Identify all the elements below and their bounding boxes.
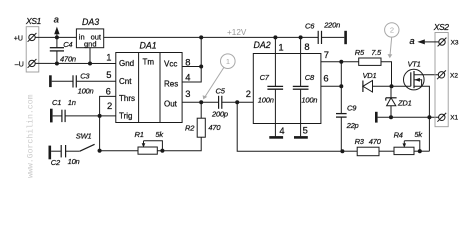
- junction dot R1 right: [160, 149, 164, 153]
- svg-text:C2: C2: [51, 158, 61, 167]
- wire DA1 pin 6: [100, 96, 116, 150]
- svg-text:4: 4: [185, 72, 190, 83]
- svg-text:Trig: Trig: [119, 112, 132, 121]
- capacitor C1: [53, 115, 62, 117]
- svg-text:Res: Res: [164, 80, 178, 89]
- svg-text:100n: 100n: [301, 96, 317, 105]
- svg-text:2: 2: [390, 26, 394, 35]
- resistor R3 470: [342, 150, 357, 152]
- ground bar DA2 pin 4: [269, 136, 283, 139]
- svg-text:X2: X2: [450, 72, 458, 79]
- svg-text:Gnd: Gnd: [119, 59, 134, 68]
- wire pin2 node down to bottom rail: [237, 102, 342, 151]
- svg-text:XS1: XS1: [25, 16, 41, 26]
- wire -U rail to DA1 pin 1: [35, 62, 116, 64]
- svg-text:ZD1: ZD1: [397, 99, 412, 108]
- bulk arrow: [414, 78, 420, 82]
- transistor VT1 (MOSFET): [404, 69, 425, 90]
- svg-text:VT1: VT1: [408, 59, 421, 68]
- svg-text:SW1: SW1: [76, 131, 92, 140]
- svg-text:2: 2: [246, 88, 251, 99]
- node a arrow (top-left): [56, 30, 58, 38]
- resistor R4 (trimmer 5k): [394, 147, 414, 154]
- svg-text:X3: X3: [451, 39, 459, 46]
- wire +12V rail DA3 to C6: [104, 36, 318, 38]
- svg-text:C9: C9: [347, 103, 357, 112]
- source wire down: [414, 86, 429, 151]
- svg-text:7.5: 7.5: [371, 48, 382, 57]
- svg-text:7: 7: [324, 49, 329, 60]
- junction dot DA2 pin1 rail: [273, 35, 277, 39]
- wire +U rail XS1 to DA3: [35, 36, 76, 38]
- driver IC DA2: [253, 54, 321, 124]
- junction dot DA2 pin8 rail: [299, 35, 303, 39]
- svg-text:C7: C7: [260, 73, 270, 82]
- ground bar C1: [50, 109, 53, 123]
- wire R1 to R2: [157, 137, 201, 151]
- junction dot C4 bottom: [55, 62, 59, 66]
- junction dot gate node: [390, 84, 394, 88]
- svg-text:470: 470: [369, 137, 382, 146]
- svg-text:1: 1: [278, 42, 283, 53]
- svg-text:470: 470: [208, 123, 221, 132]
- junction dot ZD1 bottom: [389, 115, 393, 119]
- capacitor C4: [56, 37, 58, 47]
- junction dot DA3 gnd: [88, 62, 92, 66]
- svg-text:6: 6: [323, 73, 328, 84]
- svg-text:100n: 100n: [78, 87, 94, 96]
- svg-text:XS2: XS2: [433, 22, 449, 32]
- capacitor C5 200p: [218, 96, 220, 109]
- svg-text:C5: C5: [216, 86, 226, 95]
- svg-text:C6: C6: [305, 21, 315, 30]
- svg-text:8: 8: [185, 56, 190, 67]
- circled node 1: [203, 54, 236, 100]
- svg-text:22p: 22p: [346, 121, 359, 130]
- terminal X3: [439, 39, 445, 45]
- ground bar C3: [49, 75, 52, 87]
- junction dot pin2 node: [235, 100, 239, 104]
- wire DA1 pin 8: [182, 66, 201, 68]
- wire DA2 pin 7: [321, 61, 341, 63]
- wire DA1 pin 4: [182, 37, 201, 82]
- ground bar DA2 pin 5: [294, 136, 308, 139]
- terminal X1: [439, 114, 445, 120]
- resistor R1 (trimmer 5k): [138, 147, 157, 154]
- capacitor C2: [51, 150, 61, 152]
- connector XS1: [26, 27, 39, 72]
- svg-text:R1: R1: [135, 130, 144, 139]
- svg-text:Cnt: Cnt: [119, 77, 132, 86]
- svg-text:100n: 100n: [258, 96, 274, 105]
- circled node 2: [385, 23, 399, 59]
- junction dot source line: [427, 115, 431, 119]
- resistor R2 470: [197, 118, 205, 137]
- svg-text:5: 5: [303, 125, 308, 136]
- drain wire to X2: [414, 74, 438, 76]
- svg-text:+12V: +12V: [227, 28, 247, 37]
- svg-text:gnd: gnd: [84, 39, 97, 48]
- svg-text:www.Gorchilin.com: www.Gorchilin.com: [26, 94, 36, 178]
- junction dot Out node: [199, 100, 203, 104]
- svg-text:DA2: DA2: [254, 40, 271, 50]
- svg-text:470n: 470n: [60, 54, 76, 63]
- voltage regulator DA3: [76, 29, 103, 48]
- svg-text:3: 3: [185, 88, 190, 99]
- svg-text:220n: 220n: [323, 20, 340, 29]
- svg-text:C1: C1: [52, 98, 61, 107]
- svg-text:1: 1: [226, 57, 230, 66]
- wire DA3 gnd stub: [89, 48, 91, 64]
- junction dot pin6: [339, 84, 343, 88]
- svg-text:Tm: Tm: [143, 57, 155, 66]
- junction dot rail/DA1 supply: [199, 35, 203, 39]
- svg-text:Out: Out: [164, 99, 178, 108]
- junction dot pin8 node: [199, 65, 203, 69]
- connector XS2: [435, 33, 448, 127]
- terminal +U of XS1: [29, 34, 35, 40]
- svg-text:1n: 1n: [68, 98, 76, 107]
- svg-text:DA1: DA1: [140, 41, 157, 51]
- svg-text:–U: –U: [15, 61, 24, 68]
- resistor R5 7.5: [341, 61, 358, 63]
- junction dot R4 right: [418, 149, 422, 153]
- terminal -U of XS1: [29, 60, 35, 66]
- svg-text:C3: C3: [80, 71, 90, 80]
- capacitor C9 22p: [336, 113, 347, 115]
- svg-text:6: 6: [106, 86, 111, 97]
- wire R4 to source line: [414, 150, 429, 152]
- svg-text:DA3: DA3: [82, 17, 99, 27]
- timer IC DA1: [116, 53, 182, 123]
- wire C5 to DA2 pin 2: [222, 101, 253, 103]
- junction dot pin7: [339, 60, 343, 64]
- svg-text:10n: 10n: [68, 157, 80, 166]
- wire ground bar to ZD1 node and X1 line: [378, 116, 439, 118]
- ground bar ZD1: [375, 112, 378, 123]
- zener ZD1: [390, 86, 392, 98]
- svg-text:200p: 200p: [211, 110, 228, 119]
- svg-text:R2: R2: [185, 124, 195, 133]
- svg-text:C8: C8: [305, 73, 315, 82]
- wire DA1 pin 3 out: [182, 101, 218, 103]
- capacitor C8 100n: [300, 37, 302, 86]
- wire R2 top to Out node: [200, 102, 202, 118]
- wire gate node to VT1: [392, 85, 411, 87]
- wire pins 7-6 tie: [340, 62, 342, 114]
- svg-text:VD1: VD1: [363, 71, 377, 80]
- svg-text:4: 4: [279, 125, 284, 136]
- svg-text:5k: 5k: [155, 130, 164, 139]
- junction dot pin2/pin6: [98, 114, 102, 118]
- svg-text:Vcc: Vcc: [164, 60, 177, 69]
- svg-text:2: 2: [107, 100, 112, 111]
- diode VD1: [362, 81, 364, 93]
- svg-text:1: 1: [106, 51, 111, 62]
- svg-text:X1: X1: [450, 114, 458, 121]
- svg-text:C4: C4: [63, 40, 72, 49]
- svg-text:R4: R4: [394, 131, 403, 140]
- svg-text:5k: 5k: [414, 130, 423, 139]
- svg-text:R3: R3: [355, 137, 365, 146]
- capacitor C3: [52, 80, 73, 82]
- wire DA2 pin 6: [321, 85, 341, 87]
- switch SW1: [80, 144, 95, 151]
- wire R5 to gate node: [381, 62, 392, 87]
- ground bar C6: [344, 31, 347, 44]
- svg-text:a: a: [54, 15, 59, 26]
- svg-text:+U: +U: [14, 35, 23, 42]
- svg-text:a: a: [409, 36, 414, 47]
- junction dot C4 top: [55, 35, 59, 39]
- terminal X2: [438, 72, 444, 78]
- svg-text:Thrs: Thrs: [119, 94, 135, 103]
- wire bottom-left rail: [100, 150, 138, 152]
- ground bar C2: [48, 146, 51, 160]
- svg-text:R5: R5: [355, 48, 365, 57]
- junction dot SW1 contact: [98, 149, 102, 153]
- svg-text:5: 5: [106, 69, 111, 80]
- capacitor C6 220n: [317, 31, 319, 44]
- capacitor C7 100n: [274, 37, 276, 86]
- junction dot C9 bottom: [340, 149, 344, 153]
- svg-text:8: 8: [304, 41, 309, 52]
